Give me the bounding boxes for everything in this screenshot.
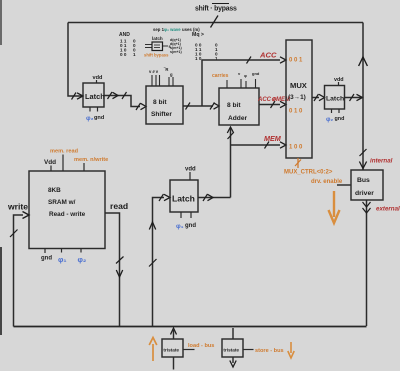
- svg-text:write: write: [7, 202, 28, 212]
- svg-text:8 bit: 8 bit: [153, 99, 167, 106]
- down arrowhead into bus driver: [359, 162, 366, 169]
- svg-text:φ₁: φ₁: [176, 223, 184, 230]
- slash on internal bus: [360, 149, 367, 156]
- svg-text:vdd: vdd: [185, 167, 196, 173]
- wire: MEM riser and branch to adder bottom: [230, 128, 232, 198]
- svg-text:Latch: Latch: [172, 194, 195, 204]
- wire: bus riser into latch U8: [153, 198, 165, 327]
- wire: drv.enable into bus driver: [311, 179, 351, 185]
- svg-text:latch: latch: [152, 36, 163, 41]
- svg-text:tristate: tristate: [223, 348, 239, 353]
- svg-text:MEM: MEM: [264, 134, 282, 143]
- svg-text:gnd: gnd: [335, 116, 345, 122]
- annotation AND truth table: [119, 32, 136, 57]
- svg-text:(3→1): (3→1): [288, 94, 306, 101]
- wire: external line from bus driver to bottom bus: [366, 200, 368, 326]
- svg-text:1: 1: [133, 52, 136, 57]
- svg-text:0 1 0: 0 1 0: [289, 109, 303, 115]
- svg-text:Shifter: Shifter: [151, 111, 172, 118]
- wire: top feedback bus line: [68, 22, 363, 24]
- svg-text:ACC: ACC: [259, 51, 277, 60]
- svg-text:Latch: Latch: [326, 96, 344, 103]
- svg-text:drv. enable: drv. enable: [311, 179, 343, 185]
- scan edge artifact top-left: [0, 0, 2, 45]
- big orange arrow up (left of tristate): [149, 338, 157, 362]
- annotation Mq table: [192, 32, 218, 61]
- svg-text:load - bus: load - bus: [188, 343, 214, 349]
- svg-text:8 bit: 8 bit: [227, 102, 241, 109]
- svg-text:read: read: [110, 201, 128, 211]
- wire: latch U5 output to internal bus: [345, 97, 364, 99]
- svg-text:MUX_CTRL<0:2>: MUX_CTRL<0:2>: [284, 170, 333, 176]
- bus driver U6: [351, 170, 383, 200]
- svg-text:gnd: gnd: [185, 223, 196, 229]
- wire: read from SRAM down to bottom bus: [105, 213, 120, 327]
- svg-text:φ₁: φ₁: [58, 255, 67, 264]
- double chevrons external: [363, 202, 371, 207]
- up arrowhead on internal bus: [359, 57, 368, 66]
- wire: shifter output to adder (node ACC): [183, 105, 213, 107]
- tristate U9 top pin with up arrow into bus: [173, 330, 175, 339]
- latch U1 (accumulator input latch): [83, 83, 105, 107]
- shifter top pins: [152, 75, 173, 86]
- tristate U9 enable and label load-bus: [183, 343, 214, 350]
- wire: adder output ACC+MEM to mux input 2: [259, 104, 280, 106]
- arrowhead into latch1: [77, 93, 83, 99]
- svg-text:sep 1: sep 1: [153, 27, 165, 32]
- vdd label latch U1: [93, 75, 104, 83]
- tristate U9 (load): [162, 339, 183, 357]
- svg-text:mem. n/write: mem. n/write: [74, 157, 108, 163]
- svg-text:φ₂: φ₂: [326, 116, 333, 123]
- svg-text:store - bus: store - bus: [255, 348, 284, 354]
- svg-text:0 0 1: 0 0 1: [289, 58, 303, 64]
- latch U5 bottom pins phi2 gnd: [326, 109, 344, 123]
- svg-text:driver: driver: [355, 190, 374, 197]
- svg-text:φ₂: φ₂: [86, 115, 94, 122]
- svg-text:tristate: tristate: [163, 348, 179, 353]
- vdd label latch U5: [334, 77, 344, 86]
- bus slash on top line: [211, 16, 219, 28]
- latch U1 bottom pins phi2 gnd: [86, 107, 105, 122]
- wire: MEM to mux input 3: [231, 144, 281, 146]
- wire: mux output to latch U5: [312, 97, 319, 99]
- svg-text:MUX: MUX: [290, 81, 307, 90]
- adder U3: [219, 88, 259, 125]
- svg-text:shift · bypass: shift · bypass: [195, 6, 237, 13]
- scan edge artifact bottom-left: [0, 247, 2, 335]
- svg-text:AND: AND: [119, 32, 130, 38]
- svg-text:1 0 0: 1 0 0: [289, 145, 303, 151]
- tristate U10 top pin from bus: [232, 328, 234, 339]
- SRAM top labels: [44, 149, 108, 172]
- svg-text:external: external: [376, 206, 400, 213]
- wire: internal vertical bus: [362, 23, 364, 171]
- tristate U10 bottom pin with down arrow: [232, 357, 234, 363]
- annotation green: phi2 wave note: [153, 27, 200, 32]
- svg-text:internal: internal: [370, 158, 393, 165]
- svg-text:8KB: 8KB: [48, 187, 61, 194]
- svg-text:s(m+1): s(m+1): [170, 50, 182, 54]
- svg-text:Bus: Bus: [357, 177, 370, 184]
- wire: bottom shared bus: [14, 326, 367, 328]
- shifter U2: [146, 86, 183, 124]
- mux U4 (3 to 1): [286, 40, 312, 158]
- svg-text:vdd: vdd: [93, 75, 104, 81]
- wire: feedback left drop into latch1: [68, 23, 82, 97]
- adder top labels: carries vdd phi gnd: [212, 71, 260, 88]
- tristate U9 bottom pin: [173, 357, 175, 370]
- vdd label latch U8: [185, 167, 196, 181]
- svg-text:shift bypass: shift bypass: [144, 53, 169, 58]
- tristate U10 (store): [222, 339, 243, 357]
- latch U8 (memory data latch): [170, 180, 198, 212]
- svg-text:‾R: ‾R: [163, 67, 168, 72]
- svg-text:mem. read: mem. read: [50, 149, 79, 155]
- svg-text:Read - write: Read - write: [49, 211, 86, 218]
- wire: latch U8 output to MEM riser: [198, 197, 231, 199]
- SRAM U7: [29, 171, 105, 249]
- svg-text:Mq >: Mq >: [192, 32, 204, 38]
- svg-text:0 0: 0 0: [120, 52, 127, 57]
- SRAM bottom pins gnd phi1 phi2: [41, 249, 86, 265]
- mux select pin and label MUX_CTRL: [284, 158, 333, 176]
- big orange arrow down: [329, 191, 340, 223]
- small orange arrow down (right of store-bus): [288, 342, 294, 358]
- shifter top pin labels: [149, 67, 173, 77]
- slash on latch1 input: [72, 93, 77, 100]
- svg-text:gnd: gnd: [41, 256, 52, 262]
- wire: latch U1 output to shifter: [104, 96, 140, 107]
- wire: ACC riser to mux input 1: [202, 60, 280, 106]
- svg-text:g: g: [170, 72, 173, 77]
- svg-text:1 0: 1 0: [195, 56, 202, 61]
- annotation small latch symbol: [144, 36, 182, 58]
- tristate U10 enable and label store-bus: [243, 348, 284, 354]
- svg-text:gnd: gnd: [94, 115, 105, 121]
- svg-text:Latch: Latch: [85, 92, 105, 101]
- svg-text:gnd: gnd: [252, 71, 260, 76]
- latch U5 (output latch): [325, 86, 345, 110]
- svg-text:carries: carries: [212, 73, 229, 79]
- svg-text:Vdd: Vdd: [44, 159, 56, 166]
- svg-text:φ₂: φ₂: [78, 255, 87, 264]
- svg-text:φ₂ wave: φ₂ wave: [164, 27, 181, 32]
- svg-text:Adder: Adder: [228, 115, 247, 122]
- svg-text:SRAM w/: SRAM w/: [48, 199, 76, 206]
- svg-text:v ∂ v: v ∂ v: [149, 69, 159, 74]
- svg-text:φ: φ: [244, 73, 247, 78]
- latch U8 bottom pins phi1 gnd: [176, 212, 196, 230]
- label shift-bypass: [195, 4, 237, 13]
- wire: write riser from bottom bus into SRAM: [14, 215, 24, 327]
